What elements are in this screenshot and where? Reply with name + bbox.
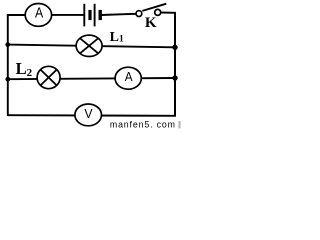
node left L2 junction [5, 77, 10, 82]
voltmeter V1 [75, 104, 102, 126]
wire left vertical bus [7, 14, 9, 116]
node right L2 junction [172, 75, 177, 80]
node right L1 junction [172, 45, 177, 50]
battery B1 [84, 4, 100, 27]
wire bottom row [8, 114, 176, 117]
switch K [136, 4, 166, 32]
svg-text:A: A [125, 69, 133, 84]
wire top row middle segment [51, 14, 84, 16]
svg-text:A: A [35, 6, 43, 22]
lamp L2 [37, 66, 60, 88]
wire top row left segment [7, 14, 26, 16]
svg-text:V: V [84, 106, 93, 121]
wire L1 branch row [8, 45, 175, 48]
wire L2 branch row [8, 78, 175, 79]
node left L1 junction [5, 42, 10, 47]
lamp L1 [76, 35, 102, 56]
watermark partial glyph at edge [179, 121, 181, 128]
wire switch to top-right corner [161, 12, 176, 14]
svg-text:manfen5. com: manfen5. com [110, 119, 176, 129]
wire right vertical bus [174, 12, 176, 116]
wire top row right segment [102, 14, 137, 15]
svg-text:K: K [145, 15, 157, 31]
ammeter A2 [115, 67, 141, 89]
ammeter A1 [25, 4, 51, 27]
